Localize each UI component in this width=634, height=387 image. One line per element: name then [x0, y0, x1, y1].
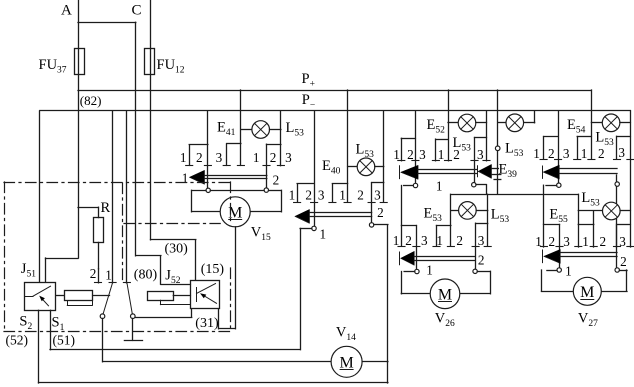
svg-text:1: 1 [426, 263, 433, 278]
switch E54 socket bracket 3 [616, 136, 618, 159]
relay J52 coil [148, 292, 174, 301]
wire frame bottom to V14 line [387, 362, 389, 383]
wire P+ feed to switch E40 [347, 90, 349, 202]
wire P- left drop to J51 [39, 111, 41, 282]
wire P- drop to S2 contact / (80) [126, 111, 128, 283]
svg-text:1: 1 [180, 150, 187, 165]
wire C (vertical from terminal C) [150, 0, 152, 240]
slider wiper arm of E52 (arrow) [399, 166, 401, 179]
wire P+ feed to switch E41 [240, 90, 242, 165]
motor V15 frame box [192, 190, 206, 192]
fuse FU37 [75, 49, 85, 75]
indicator lamp L53 of E55 [578, 210, 602, 212]
wire P+ feed to switch E52 [448, 90, 450, 161]
wire S2 pivot to ground [132, 319, 134, 341]
resistor R [94, 218, 104, 243]
fuse FU12 [145, 49, 155, 75]
motor V27 [573, 277, 601, 305]
feed rail to wash motors [451, 194, 578, 196]
svg-text:A: A [61, 3, 72, 19]
wire E53 drop to pivot 1 [416, 226, 418, 270]
wire E54 pivot1 to E55 switch [546, 185, 557, 187]
motor V14 [331, 346, 362, 377]
svg-text:3: 3 [618, 145, 625, 160]
pivot node 2 of E41 [264, 188, 268, 192]
svg-text:R: R [101, 200, 111, 216]
wire S1 pivot to V14 motor [102, 319, 104, 362]
ground (chassis) [124, 340, 142, 342]
svg-text:(15): (15) [201, 262, 225, 277]
wire feed rail to E55 [578, 194, 580, 224]
wire P+ feed line of E39 [497, 90, 499, 146]
svg-text:C: C [132, 3, 142, 19]
bus P- (negative rail) [40, 110, 631, 112]
svg-text:3: 3 [619, 234, 626, 249]
svg-text:1: 1 [582, 234, 589, 249]
wire P- drop to E40 lamp [383, 111, 385, 202]
slider wiper arm of E39 (arrow) [477, 166, 479, 177]
slider rails of E41 [205, 175, 267, 177]
svg-text:2: 2 [357, 188, 364, 203]
pivot node 2 of E53 [473, 269, 477, 273]
svg-text:3: 3 [374, 188, 381, 203]
svg-text:3: 3 [216, 150, 223, 165]
slider wiper arm of E53 (arrow) [399, 252, 401, 265]
pivot node of E52 [413, 183, 417, 187]
svg-text:2: 2 [270, 150, 277, 165]
svg-text:1: 1 [253, 150, 260, 165]
svg-text:3: 3 [477, 147, 484, 162]
switch E52 socket bracket 1-2 [401, 138, 403, 161]
indicator lamp L53 of E41 [241, 129, 252, 131]
svg-text:1: 1 [393, 233, 400, 248]
slider wiper arm of E41 (arrow) [190, 170, 205, 184]
svg-text:2: 2 [305, 188, 312, 203]
svg-text:(51): (51) [53, 333, 76, 348]
svg-text:3: 3 [419, 147, 426, 162]
wire P- drop to E54 slider pivot [558, 111, 560, 183]
svg-text:1: 1 [182, 171, 189, 186]
svg-text:1: 1 [535, 234, 542, 249]
svg-text:3: 3 [563, 146, 570, 161]
relay J51 coil [65, 291, 93, 301]
wire V14 motor to E40 pivot2 line [362, 361, 388, 363]
wire P- drop to E52 slider pivot [415, 111, 417, 183]
switch E52 socket bracket mid [435, 139, 437, 161]
svg-text:3: 3 [563, 234, 570, 249]
svg-text:2: 2 [478, 253, 485, 268]
pivot node 2 of E55 [615, 268, 619, 272]
wire E40 pivot1 to S1 rail [300, 228, 312, 230]
wire A to resistor R [78, 207, 98, 209]
switch S2 blade [127, 283, 132, 314]
wire E55 drop to pivot 1 [559, 224, 561, 267]
pivot node 1 of E55 [557, 268, 561, 272]
svg-text:(82): (82) [80, 93, 102, 108]
slider rails of E54 [559, 168, 617, 170]
switch E55 socket bracket mid [578, 224, 580, 247]
wire P- drop to S1 contact 1 [112, 111, 114, 283]
wire E40 pivot2 to V14 motor [374, 224, 388, 226]
slider rails of E53 [414, 256, 475, 258]
pivot node 1 of E41 [206, 188, 210, 192]
switch E53 socket bracket mid [436, 226, 438, 247]
svg-text:2: 2 [598, 146, 605, 161]
switch E40 socket bracket 3 [371, 183, 373, 223]
svg-text:2: 2 [377, 205, 384, 220]
wire E39 pivot to feed rail [476, 184, 486, 186]
wire resistor R to contact 2 [98, 242, 100, 268]
indicator lamp L53 of E40 [348, 166, 358, 168]
relay J52 contact symbol [196, 288, 198, 302]
svg-text:2: 2 [456, 233, 463, 248]
pivot node 1 of E54 [557, 183, 561, 187]
svg-text:1: 1 [436, 233, 443, 248]
wire feed rail to E53 [450, 194, 452, 246]
svg-text:(30): (30) [165, 242, 189, 257]
svg-text:M: M [438, 286, 452, 303]
svg-text:1: 1 [438, 147, 445, 162]
relay J51 contact symbol [25, 296, 34, 298]
switch E54 socket bracket 1-2 [543, 137, 545, 160]
svg-text:1: 1 [105, 268, 112, 283]
indicator lamp L53 of E52 [448, 122, 458, 124]
switch E55 socket bracket 1-2 [543, 224, 545, 247]
wire P- drop to E39 bracket [486, 111, 488, 161]
pilot lamp L53 (between E39 line and P-) [498, 122, 506, 124]
svg-text:3: 3 [318, 188, 325, 203]
svg-text:2: 2 [405, 233, 412, 248]
svg-text:M: M [580, 284, 594, 301]
switch S1 pivot node [100, 314, 105, 319]
switch E41 socket bracket 1-2 [189, 145, 191, 166]
wire S2 return (J51 to frame bottom) [38, 310, 40, 383]
slider wiper arm of E40 (arrow) [295, 209, 310, 223]
wire P- bend drop (right edge) [630, 111, 632, 247]
svg-text:1: 1 [320, 227, 327, 242]
svg-text:2: 2 [548, 146, 555, 161]
svg-text:1: 1 [436, 179, 443, 194]
switch E52/E39 socket bracket 3 [474, 138, 476, 183]
svg-text:M: M [339, 354, 353, 371]
wire P+ bend feed to switch E54 [591, 90, 593, 159]
dash-dot enclosure (wiper control unit) [4, 182, 231, 184]
svg-text:1: 1 [565, 264, 572, 279]
wire P- drop to E41 slider pivot 1 [207, 111, 209, 188]
slider rails of E39 [492, 168, 499, 170]
svg-text:1: 1 [533, 146, 540, 161]
switch E54 socket bracket mid [577, 137, 579, 160]
pivot node 2 of E54 [616, 175, 618, 182]
svg-text:1: 1 [581, 146, 588, 161]
switch E40 socket bracket 2 [332, 184, 334, 202]
switch S2 pivot node [131, 314, 136, 319]
mechanical linkage (dash-dot) to motor V15 [124, 223, 220, 225]
pivot node of E39 [472, 183, 476, 187]
indicator lamp L53 of E54 [591, 122, 602, 124]
slider rails of E52 [418, 169, 477, 171]
switch E53 socket bracket 1-2 [401, 226, 403, 247]
slider rails of E40 [310, 212, 372, 214]
wire A down-bend into J51 [46, 258, 79, 260]
wire S2 pivot branch to J52 (31) [135, 317, 192, 319]
wire (30) branch to J52 [136, 255, 161, 257]
motor V15 [220, 197, 250, 227]
svg-text:2: 2 [90, 266, 97, 281]
relay J51 box [25, 283, 56, 311]
wire P- drop to E40 slider pivot 1 [314, 111, 316, 226]
pivot node 1 of E53 [415, 269, 419, 273]
svg-text:2: 2 [273, 173, 280, 188]
wire A (vertical from terminal A) [78, 0, 80, 258]
wire E54 pivot2 down to E55 bracket [616, 186, 618, 267]
pivot node 2 of E40 [369, 223, 373, 227]
svg-text:(52): (52) [6, 333, 29, 348]
svg-text:1: 1 [393, 147, 400, 162]
mechanical linkage (dash-dot) to switches [122, 183, 124, 282]
switch E53 socket bracket 3 [475, 223, 477, 269]
junction node on E39 line [495, 146, 500, 151]
switch S1 blade [103, 283, 112, 314]
switch E41 socket bracket 3 [226, 144, 228, 166]
svg-text:2: 2 [407, 147, 414, 162]
slider wiper arm of E55 (arrow) [542, 250, 544, 263]
svg-text:3: 3 [421, 233, 428, 248]
svg-text:2: 2 [600, 234, 607, 249]
wire S1 (J51 to E40 pivot rail) [50, 310, 52, 349]
wire lamp to P- [534, 111, 536, 123]
svg-text:(80): (80) [134, 268, 158, 283]
svg-text:2: 2 [620, 254, 627, 269]
svg-text:1: 1 [289, 188, 296, 203]
svg-text:2: 2 [549, 234, 556, 249]
slider rails of E55 [560, 252, 617, 254]
slider wiper arm of E54 (arrow) [542, 166, 544, 178]
switch E55 socket bracket 3 [616, 224, 618, 247]
wire feed rail to E53 lamp [487, 194, 489, 246]
pivot node 1 of E40 [312, 226, 316, 230]
switch E40 socket bracket 1 [297, 184, 299, 202]
wire A-branch bend to (30) [78, 22, 136, 24]
svg-text:2: 2 [196, 150, 203, 165]
motor V26 [430, 279, 460, 309]
frame bottom wire [39, 382, 388, 384]
wire E52 pivot to E53 switch [404, 185, 414, 187]
wire C bend to J52 [151, 239, 196, 241]
svg-text:3: 3 [285, 150, 292, 165]
wire V15 motor bottom to (31) junction [235, 227, 237, 329]
relay J52 box [191, 281, 220, 309]
motor V26 frame [404, 271, 415, 273]
svg-text:(31): (31) [195, 316, 219, 331]
svg-text:3: 3 [478, 233, 485, 248]
svg-text:1: 1 [339, 188, 346, 203]
switch E41 socket bracket group2 [266, 144, 268, 188]
indicator lamp L53 of E53 [451, 210, 459, 212]
bus P+ (positive rail) [78, 90, 591, 92]
motor V27 frame [547, 270, 557, 272]
